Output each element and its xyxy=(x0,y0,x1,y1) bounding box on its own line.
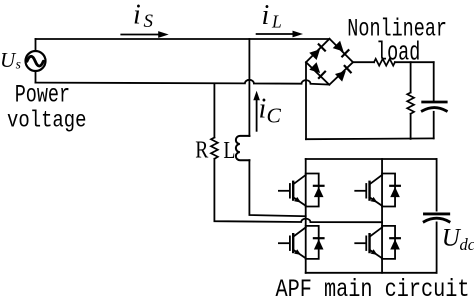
load capacitor xyxy=(422,102,446,111)
label iS xyxy=(133,0,154,32)
current arrow iL xyxy=(257,31,303,38)
diode bridge rectifier xyxy=(306,39,353,85)
label iC xyxy=(259,93,282,127)
label Nonlinear load xyxy=(347,15,447,67)
svg-text:s: s xyxy=(16,56,21,71)
load resistor vertical xyxy=(407,93,414,114)
wire: source bottom terminal xyxy=(35,71,37,83)
wire: bridge minus return, left vertex down to load bottom rail xyxy=(305,62,307,139)
resistor R xyxy=(211,138,218,159)
svg-text:i: i xyxy=(133,0,141,30)
wire: load resistor branch bottom xyxy=(410,114,412,139)
wire: APF dc rail bottom xyxy=(436,222,438,272)
label Power voltage xyxy=(7,81,87,135)
bridge diode D4 bottom-right xyxy=(335,65,351,81)
bridge diode D1 top-left xyxy=(309,44,325,60)
IGBT Q3 bottom-left with freewheel diode xyxy=(279,226,324,259)
svg-text:R: R xyxy=(195,136,208,164)
wire: load bottom rail xyxy=(306,137,434,140)
label Udc xyxy=(442,225,474,255)
wire: inductor to left leg midpoint xyxy=(249,160,305,216)
svg-text:Power: Power xyxy=(15,81,70,109)
capacitor Udc xyxy=(424,214,449,222)
wire: APF top rail xyxy=(306,158,437,160)
wire: resistor R down and right to right leg midpoint, hop over left leg xyxy=(214,159,382,222)
label R xyxy=(195,136,208,164)
svg-text:L: L xyxy=(271,12,282,32)
svg-text:dc: dc xyxy=(460,235,474,254)
wire: source top terminal xyxy=(35,39,37,51)
bridge diode D2 top-right xyxy=(333,41,349,57)
wire: bottom conductor with hops at x=249.4 and x=306 xyxy=(36,80,330,85)
svg-text:i: i xyxy=(262,0,270,31)
bridge diode D3 bottom-left xyxy=(309,62,325,78)
current arrow iC xyxy=(253,91,260,131)
svg-text:voltage: voltage xyxy=(7,108,87,134)
wire: load capacitor branch bottom xyxy=(433,112,435,139)
label iL xyxy=(262,0,282,31)
ac source Us xyxy=(26,51,46,71)
series resistor of load xyxy=(374,59,395,66)
label L xyxy=(223,136,235,163)
wire: bottom conductor down to resistor R xyxy=(213,83,215,137)
wire: APF right leg xyxy=(381,159,383,273)
svg-text:APF main circuit: APF main circuit xyxy=(276,276,470,299)
svg-text:S: S xyxy=(144,11,154,32)
svg-text:L: L xyxy=(223,136,235,163)
APF H-bridge xyxy=(279,159,474,273)
label Us xyxy=(0,48,21,72)
svg-text:C: C xyxy=(267,103,282,127)
wire: APF left leg xyxy=(305,159,307,273)
IGBT Q2 top-right with freewheel diode xyxy=(355,174,400,207)
svg-text:U: U xyxy=(0,48,17,72)
wire: load capacitor branch top xyxy=(433,62,435,100)
wire: APF dc rail top xyxy=(436,159,438,211)
wire: bridge + output to series resistor xyxy=(353,61,374,63)
wire: top conductor xyxy=(36,38,330,40)
wire: load resistor branch top xyxy=(410,62,412,92)
label APF main circuit xyxy=(276,276,470,299)
IGBT Q4 bottom-right with freewheel diode xyxy=(355,226,400,259)
svg-text:i: i xyxy=(259,93,267,124)
wire: APF bottom rail xyxy=(306,272,437,274)
bridge diamond wires xyxy=(306,39,353,85)
IGBT Q1 top-left with freewheel diode xyxy=(279,174,324,207)
inductor L coil xyxy=(236,136,250,160)
current arrow iS xyxy=(121,31,168,38)
wire: load top rail xyxy=(395,61,434,63)
wire: APF branch from top conductor down to inductor xyxy=(248,39,250,136)
